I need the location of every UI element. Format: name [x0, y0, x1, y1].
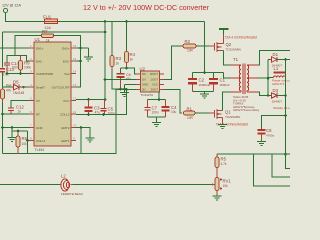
- junction bus D3: [267, 94, 270, 97]
- svg-text:ROUT: ROUT: [150, 72, 158, 76]
- svg-text:GND: GND: [36, 126, 44, 130]
- svg-text:100n: 100n: [152, 111, 159, 115]
- U2 pin stubs right: [160, 74, 165, 90]
- wire R2 to Q2 gate: [196, 45, 209, 47]
- svg-text:10u: 10u: [171, 110, 177, 114]
- svg-text:TO220ABN: TO220ABN: [225, 115, 240, 119]
- junction 2N x126.5: [125, 88, 128, 91]
- junction D3 out: [284, 94, 287, 97]
- svg-text:R2: R2: [185, 39, 191, 44]
- svg-text:COMP/PWM: COMP/PWM: [36, 72, 54, 76]
- svg-text:RV1: RV1: [223, 179, 232, 184]
- ground symbol C8: [257, 142, 266, 146]
- junction COMP C14: [6, 72, 9, 75]
- wire Q2 source to T1: [224, 51, 231, 66]
- svg-text:Vref: Vref: [64, 72, 70, 76]
- wire 12V rail: [58, 21, 205, 23]
- wire RV1 bottom stem: [216, 191, 218, 197]
- U2 pin names: [142, 72, 148, 92]
- junction VCC C3: [87, 98, 90, 101]
- annotation T1: [233, 95, 260, 112]
- ground symbol below C3: [86, 138, 95, 142]
- capacitor C6: [117, 73, 132, 89]
- svg-text:OUTC/OUTR: OUTC/OUTR: [52, 86, 71, 90]
- resistor R7 feedback: [42, 29, 54, 43]
- svg-text:13: 13: [73, 83, 77, 87]
- wire C14/R9 top frame: [7, 56, 29, 63]
- svg-text:10: 10: [73, 124, 77, 128]
- ground symbol below C7: [152, 123, 161, 127]
- U1 pin numbers: [30, 44, 77, 141]
- resistor R3: [110, 56, 122, 69]
- wire COLL2 row: [76, 90, 127, 115]
- wire C2/C1 bottom frame: [193, 91, 214, 93]
- ground symbol EA2+: [84, 57, 93, 61]
- wire R7 right to feedback drop: [54, 36, 81, 88]
- capacitor C8: [258, 128, 275, 142]
- inductor L1: [268, 66, 286, 78]
- svg-text:12 V to +/- 20V 100W DC-DC con: 12 V to +/- 20V 100W DC-DC converter: [83, 3, 210, 12]
- junction ground node: [123, 88, 126, 91]
- svg-text:GND: GND: [142, 83, 148, 87]
- wire secondary bottom to D3: [258, 92, 268, 95]
- wire R3 bottom to ground node: [112, 69, 125, 90]
- junction C8 bus: [284, 114, 287, 117]
- svg-text:2OUT: 2OUT: [151, 88, 159, 92]
- wire U2 out to R2: [164, 46, 183, 80]
- svg-text:T1: T1: [233, 57, 239, 62]
- U1 pin names right: [52, 47, 71, 144]
- junction EA2+: [79, 47, 82, 50]
- wire EA1+ from left edge: [0, 47, 29, 49]
- svg-text:72A 4 mOhms/Mosfet: 72A 4 mOhms/Mosfet: [225, 36, 258, 40]
- svg-text:COLL2: COLL2: [60, 113, 70, 117]
- capacitor C14: [4, 61, 19, 74]
- wire center tap to 12V frame: [224, 73, 231, 79]
- wire secondary mid to D bus: [258, 77, 268, 79]
- input terminal: [4, 9, 8, 22]
- junction COMP R9: [19, 72, 22, 75]
- svg-text:AWG'S*1: AWG'S*1: [272, 82, 285, 86]
- svg-text:10k: 10k: [22, 142, 28, 146]
- wire feedback rail: [217, 153, 290, 155]
- svg-text:D3: D3: [273, 88, 279, 93]
- junction VCC x105: [104, 98, 107, 101]
- junction frame 12V: [203, 71, 206, 74]
- svg-text:TL494: TL494: [35, 148, 45, 152]
- svg-text:4.7k: 4.7k: [221, 162, 227, 166]
- capacitor C2: [188, 73, 211, 92]
- svg-text:4700u: 4700u: [266, 134, 275, 138]
- wire C6 top stem: [120, 68, 122, 73]
- wire U2 GND pin to ground: [125, 84, 137, 86]
- diode D5: [13, 80, 29, 96]
- svg-text:12V @ 12A: 12V @ 12A: [2, 4, 21, 8]
- wire GND row: [3, 127, 30, 129]
- svg-text:VCC: VCC: [152, 83, 158, 87]
- wire left edge vertical: [2, 32, 4, 68]
- diode D3: [268, 88, 286, 104]
- wire R4 to C6 and U2 pin1: [121, 68, 137, 74]
- svg-text:2N: 2N: [142, 88, 146, 92]
- junction D1 out: [284, 58, 287, 61]
- wire upper-left horizontal y32.5: [3, 31, 106, 33]
- wire Q1 drain to T1: [223, 92, 231, 110]
- transistor Q1: [209, 109, 240, 119]
- wire EA2+ to ground: [76, 47, 88, 49]
- svg-text:EMT2: EMT2: [61, 126, 69, 130]
- resistor R1: [184, 107, 196, 121]
- capacitor C1: [209, 73, 230, 92]
- junction COLL1: [26, 139, 29, 142]
- wire frame ground stem: [204, 92, 206, 95]
- svg-text:15: 15: [73, 57, 77, 61]
- junction R6 top: [17, 130, 20, 133]
- svg-text:CT: CT: [36, 99, 40, 103]
- ground symbol RV1: [213, 196, 222, 200]
- svg-text:COLL1: COLL1: [36, 139, 46, 143]
- junction GND x12: [11, 126, 14, 129]
- svg-text:C2: C2: [199, 78, 205, 83]
- inductor L2 ferrite bead: [60, 174, 84, 197]
- svg-text:EA1+: EA1+: [36, 47, 44, 51]
- wire U2 2N pin from bottom rail: [116, 89, 136, 91]
- svg-text:AWG'S*1secondary: AWG'S*1secondary: [233, 108, 260, 112]
- wire left edge vertical below C13: [2, 73, 4, 89]
- wire C2/C1 top frame: [193, 72, 224, 74]
- svg-text:1N4148: 1N4148: [13, 91, 24, 95]
- resistor R2: [183, 39, 196, 53]
- junction x105 y32.5: [104, 31, 107, 34]
- svg-text:DeadT: DeadT: [36, 86, 45, 90]
- svg-text:EA1-: EA1-: [36, 60, 43, 64]
- U1 pin stubs right: [71, 48, 76, 141]
- wire ground node stem: [124, 85, 126, 93]
- wire L2 line from edge: [0, 184, 60, 186]
- svg-text:14: 14: [73, 70, 77, 74]
- wire bottom-left ground rail: [3, 90, 117, 154]
- svg-text:11: 11: [73, 110, 76, 114]
- wire ground stem EA2+: [87, 48, 89, 57]
- junction C6 bottom: [119, 88, 122, 91]
- wire C8 feed: [262, 116, 286, 129]
- svg-text:C8: C8: [266, 128, 272, 133]
- wire U2 2OUT to R1: [164, 90, 182, 114]
- ground symbol left: [8, 138, 17, 142]
- wire output tap 3: [254, 154, 291, 186]
- junction rail output: [284, 153, 287, 156]
- power bar +12V: [219, 29, 229, 34]
- annotation L1: [272, 79, 299, 86]
- svg-text:1k: 1k: [116, 62, 120, 66]
- transformer T1: [230, 57, 258, 94]
- wire frame ground stem: [156, 117, 158, 122]
- capacitor C4: [162, 100, 178, 118]
- junction COLL2 C3: [87, 113, 90, 116]
- wire COLL1 vertical: [27, 131, 29, 154]
- wire EMT2 to bottom rail: [80, 128, 82, 154]
- wire CT row: [11, 101, 29, 108]
- wire vertical x112 rail to R3: [111, 22, 113, 56]
- svg-text:10k: 10k: [223, 184, 229, 188]
- svg-text:R6: R6: [22, 136, 28, 141]
- op-amp U1 TL494 body: [34, 37, 71, 152]
- svg-text:10R: 10R: [187, 116, 194, 120]
- svg-text:U1: U1: [35, 37, 41, 42]
- svg-text:100n: 100n: [12, 65, 19, 69]
- svg-text:NC: NC: [142, 72, 146, 76]
- wire D5 anode: [3, 86, 14, 88]
- ground symbol below C2/C1: [200, 94, 209, 98]
- wire EMT2 row: [76, 128, 90, 139]
- svg-text:1N: 1N: [142, 78, 146, 82]
- wire secondary top to edge: [258, 51, 290, 66]
- svg-text:16: 16: [73, 44, 77, 48]
- svg-text:R3: R3: [116, 56, 122, 61]
- svg-text:R7: R7: [42, 29, 48, 34]
- svg-text:R4: R4: [130, 52, 136, 57]
- junction EA2-: [79, 60, 82, 63]
- U2 pin stubs left: [136, 74, 141, 90]
- svg-text:1OUT: 1OUT: [151, 78, 159, 82]
- wire COMP row: [7, 73, 29, 75]
- wire L2 to RV1 wiper: [73, 184, 212, 186]
- junction GND left: [1, 126, 4, 129]
- wire C7/C4 top frame: [148, 99, 166, 101]
- wire U2 1N pin to x105: [105, 79, 136, 81]
- svg-text:1N4007: 1N4007: [272, 100, 283, 104]
- svg-text:1k: 1k: [46, 39, 50, 43]
- svg-text:EA2-: EA2-: [63, 60, 70, 64]
- ground symbol mid: [120, 93, 129, 97]
- svg-text:D1: D1: [273, 52, 279, 57]
- svg-text:1n: 1n: [18, 110, 22, 114]
- fuse FU1: [43, 15, 58, 31]
- svg-text:EMT1: EMT1: [61, 139, 69, 143]
- svg-text:FERRITE BEAD: FERRITE BEAD: [61, 192, 84, 196]
- wire vertical x105 rail to VCC: [104, 22, 106, 100]
- wire C7/C4 bottom frame: [148, 116, 166, 118]
- junction frame x159: [158, 98, 161, 101]
- U1 pin names left: [36, 47, 54, 144]
- svg-text:R5: R5: [221, 157, 227, 162]
- wire vertical x126.5 rail to R4: [126, 22, 128, 52]
- svg-text:Q1: Q1: [225, 110, 231, 115]
- wire left edge vertical below R8: [2, 102, 4, 154]
- resistor R9: [19, 56, 32, 74]
- svg-text:L2: L2: [61, 174, 66, 179]
- svg-text:47k: 47k: [6, 89, 12, 93]
- wire EA2- to link: [76, 60, 81, 62]
- junction 1N x105: [104, 78, 107, 81]
- transistor Q2: [209, 34, 241, 52]
- svg-text:D5: D5: [13, 80, 19, 85]
- wire 12V rail drop to caps: [204, 22, 206, 73]
- wire Q1 source stem: [222, 118, 224, 125]
- wire VCC row: [76, 99, 105, 101]
- potentiometer RV1: [212, 178, 232, 191]
- wire RT row: [3, 113, 30, 115]
- wire diode bus vertical: [267, 60, 269, 96]
- U1 pin stubs left: [29, 48, 34, 141]
- svg-text:VCC: VCC: [63, 99, 70, 103]
- junction bus mid: [267, 77, 270, 80]
- svg-text:Shottky 3A or sim: Shottky 3A or sim: [273, 106, 290, 110]
- junction 12V rail x126.5: [125, 20, 128, 23]
- svg-text:Q2: Q2: [226, 42, 232, 47]
- wire COLL1 loop: [12, 130, 28, 132]
- capacitor C5: [101, 100, 115, 116]
- wire output bus vertical: [285, 60, 287, 169]
- svg-text:1k: 1k: [130, 58, 134, 62]
- wire U2 bottom to frame: [158, 92, 160, 100]
- wire COLL1 to pin: [28, 140, 30, 142]
- resistor R8: [1, 84, 13, 103]
- capacitor C12: [8, 105, 24, 115]
- wire output tap 1: [286, 154, 291, 168]
- resistor R6: [16, 131, 28, 154]
- resistor R4: [125, 52, 136, 69]
- junction EMT2: [80, 126, 83, 129]
- op-amp U2 TC4427A body: [140, 67, 160, 98]
- junction R4 node: [125, 67, 128, 70]
- capacitor C7: [145, 100, 159, 118]
- svg-text:47u: 47u: [95, 111, 101, 115]
- resistor R5: [215, 154, 227, 177]
- junction 12V rail x105: [104, 20, 107, 23]
- wire D1 to edge: [286, 59, 291, 61]
- svg-text:EA2+: EA2+: [62, 47, 70, 51]
- wire ground stem x12: [11, 128, 13, 138]
- diode D1: [268, 52, 286, 68]
- wire terminal to fuse: [5, 21, 45, 23]
- junction COLL2 C5: [102, 113, 105, 116]
- svg-text:TC4427A: TC4427A: [141, 93, 154, 97]
- capacitor C13: [0, 67, 14, 77]
- ground symbol Q1: [218, 125, 227, 129]
- wire R1 to Q1 gate: [195, 112, 209, 114]
- capacitor C3: [85, 100, 101, 115]
- svg-text:RT: RT: [36, 113, 40, 117]
- junction RT left: [1, 113, 4, 116]
- wire feedback tap up: [15, 36, 42, 56]
- svg-text:10R: 10R: [187, 49, 194, 53]
- svg-text:TO220ABN: TO220ABN: [226, 48, 241, 52]
- svg-text:1800uF: 1800uF: [220, 83, 230, 87]
- svg-text:L1: L1: [274, 66, 279, 71]
- wire output tap 2: [272, 154, 290, 177]
- svg-text:10000uF: 10000uF: [199, 83, 211, 87]
